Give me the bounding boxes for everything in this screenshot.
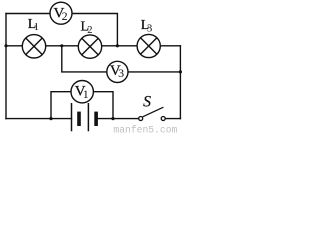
node: V3 / right border junction <box>179 70 182 73</box>
wire: right border <box>179 46 181 119</box>
wire: lamp line, L3 to right border <box>160 45 180 47</box>
svg-text:2: 2 <box>62 9 68 23</box>
node: V1 left tap on bottom line <box>49 117 52 120</box>
node A: lamp line junction between L1 and L2 <box>60 44 63 47</box>
wire: V1 right branch <box>93 92 113 119</box>
wire: bottom line, left corner to battery <box>6 118 72 120</box>
battery cell 2 long plate <box>87 103 89 131</box>
battery cell 2 short thick plate <box>94 112 98 126</box>
battery cell 1 long plate <box>71 103 73 131</box>
wire: lamp line, left border to L1 <box>6 45 22 47</box>
lamp L3 <box>137 34 160 57</box>
wire: left border <box>5 14 7 119</box>
wire: switch to bottom-right corner <box>165 118 181 120</box>
voltmeter V3 <box>107 61 128 82</box>
wire: battery to switch <box>98 118 138 120</box>
wire: V1 left branch <box>51 92 71 119</box>
node: V1 right tap on bottom line <box>111 117 114 120</box>
node: left border / lamp line junction <box>4 44 7 47</box>
label L1 <box>28 17 39 33</box>
svg-text:S: S <box>143 94 151 111</box>
wire: lamp line, L2 to L3 <box>102 45 138 47</box>
voltmeter V2 <box>50 2 72 24</box>
svg-text:3: 3 <box>118 66 124 80</box>
svg-text:manfen5.com: manfen5.com <box>113 124 177 133</box>
lamp L1 <box>22 35 45 58</box>
battery cell 1 short thick plate <box>77 112 81 126</box>
wire: top line left segment (top-left corner to V2) <box>6 13 50 15</box>
svg-text:1: 1 <box>83 87 89 101</box>
lamp L2 <box>78 35 101 58</box>
switch S <box>139 107 166 120</box>
svg-text:2: 2 <box>87 25 92 36</box>
node B: lamp line junction between L2 and L3 <box>116 44 119 47</box>
wire: V3 to right border <box>128 71 180 73</box>
wire: lamp line, L1 to L2 <box>46 45 79 47</box>
wire: top line right segment and drop to lamp line (V2 to node B) <box>72 14 118 46</box>
svg-text:1: 1 <box>34 22 39 33</box>
voltmeter V1 <box>71 81 93 103</box>
label L2 <box>81 19 93 36</box>
label L3 <box>141 18 153 34</box>
wire: V3 branch from node A down and to V3 <box>62 46 107 72</box>
svg-text:3: 3 <box>147 23 152 34</box>
